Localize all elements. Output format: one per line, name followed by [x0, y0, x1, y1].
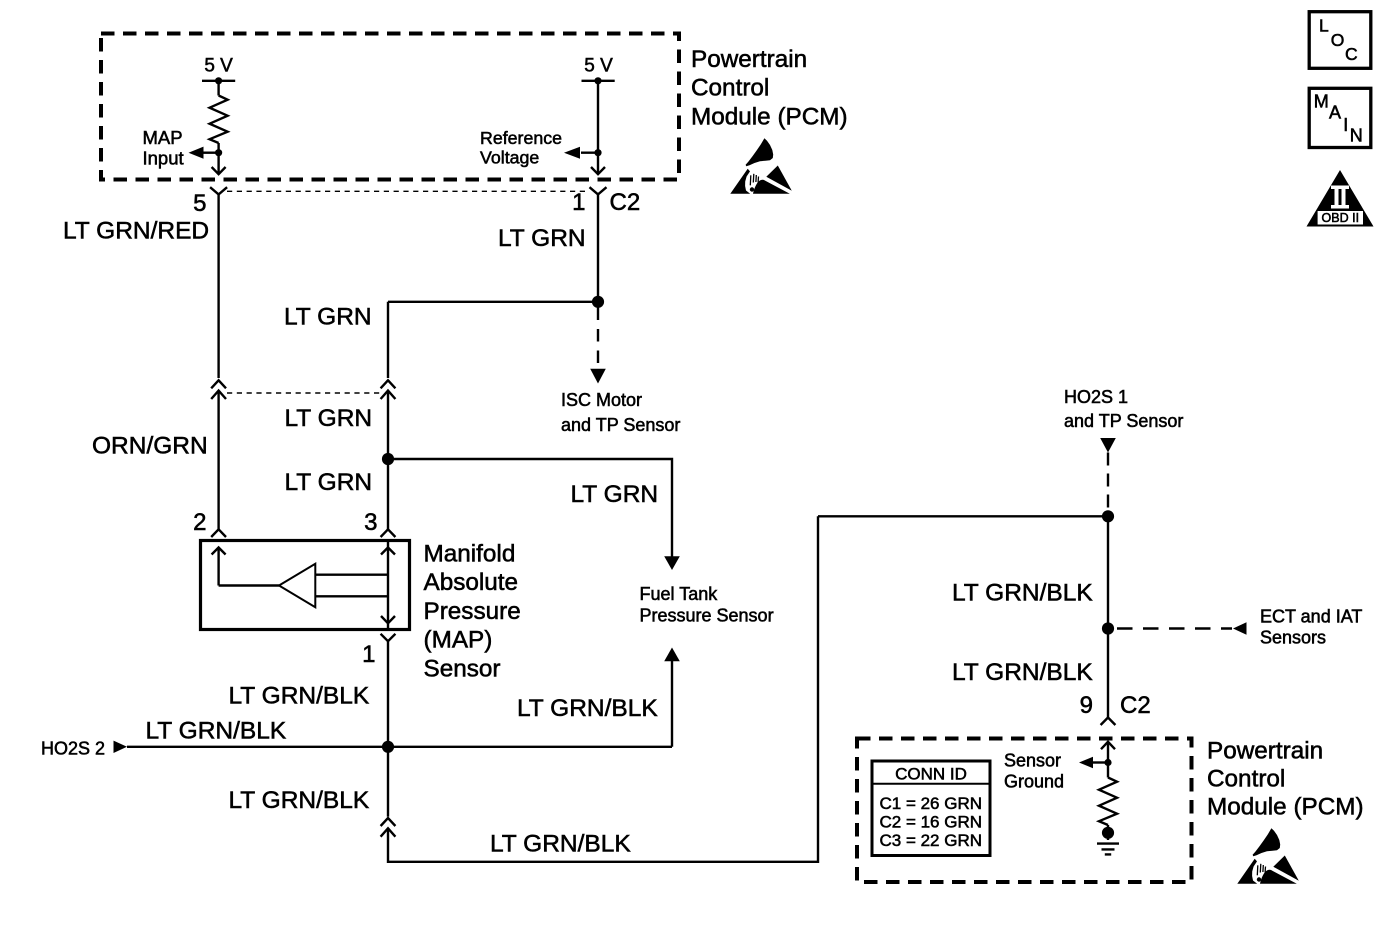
label Sensor Ground — [1004, 751, 1064, 792]
svg-text:Sensors: Sensors — [1260, 628, 1326, 648]
svg-text:C: C — [1345, 44, 1358, 64]
svg-text:M: M — [1314, 92, 1329, 112]
svg-text:LT GRN/BLK: LT GRN/BLK — [229, 787, 370, 814]
arrow MAP input (left) — [189, 147, 204, 159]
wire middle down to MAP pin3 — [387, 391, 389, 530]
wire reference voltage stub — [581, 151, 598, 153]
svg-text:3: 3 — [364, 509, 377, 536]
MAP internal left wire with up arrow — [217, 548, 219, 586]
arrowhead down at PCM edge left — [212, 167, 226, 174]
wire LT GRN to fuel tank pressure sensor — [388, 459, 672, 557]
node junction HO2S1 — [1102, 510, 1114, 522]
svg-text:(MAP): (MAP) — [424, 627, 493, 654]
CONN ID table box — [872, 761, 990, 856]
wire resistor to PCM edge — [217, 143, 219, 174]
node dot ground — [1102, 827, 1114, 839]
node dot 5V right — [594, 77, 601, 84]
svg-text:LT GRN/BLK: LT GRN/BLK — [517, 695, 658, 722]
svg-text:Powertrain: Powertrain — [1207, 737, 1323, 764]
svg-text:CONN ID: CONN ID — [895, 765, 967, 784]
svg-text:OBD II: OBD II — [1322, 211, 1360, 225]
wire MAP input stub — [204, 151, 219, 153]
svg-text:LT GRN/BLK: LT GRN/BLK — [229, 683, 370, 710]
MAP internal up arrow right — [381, 548, 395, 555]
wire to PCM pin9 (long run) — [388, 516, 818, 862]
svg-text:C1 = 26 GRN: C1 = 26 GRN — [880, 794, 983, 813]
svg-text:Module (PCM): Module (PCM) — [691, 103, 848, 130]
svg-text:ISC Motor: ISC Motor — [561, 390, 642, 410]
PCM module box (top) — [101, 34, 679, 180]
dashed wire from HO2S1 — [1107, 453, 1109, 511]
svg-text:C2: C2 — [610, 189, 641, 216]
label ECT and IAT Sensors — [1260, 607, 1362, 648]
wire HO2S2 horizontal — [127, 746, 672, 748]
node dot 5V left — [215, 77, 222, 84]
svg-text:5: 5 — [193, 190, 206, 217]
svg-text:1: 1 — [362, 641, 375, 668]
node dot MAP input tap — [215, 149, 222, 156]
svg-text:LT GRN/RED: LT GRN/RED — [63, 218, 209, 245]
wire pin5 down (LT GRN/RED) — [217, 194, 219, 378]
inline connector left (chevrons) — [211, 380, 226, 399]
svg-text:ORN/GRN: ORN/GRN — [92, 433, 208, 460]
svg-text:5 V: 5 V — [204, 56, 233, 77]
svg-text:LT GRN: LT GRN — [285, 405, 373, 432]
arrowhead up at PCM edge (sensor ground) — [1101, 742, 1115, 749]
resistor R (MAP input pull-up) — [210, 96, 228, 144]
svg-text:Sensor: Sensor — [1004, 751, 1061, 771]
inline connector middle (chevrons) — [381, 380, 396, 399]
svg-text:LT GRN/BLK: LT GRN/BLK — [952, 659, 1093, 686]
svg-text:Control: Control — [691, 74, 769, 101]
node dot reference voltage tap — [594, 149, 601, 156]
svg-text:Powertrain: Powertrain — [691, 46, 807, 73]
CONN ID table title separator — [874, 783, 989, 785]
svg-text:9: 9 — [1080, 692, 1093, 719]
connector pin 3 MAP — [381, 529, 396, 537]
svg-text:C3 = 22 GRN: C3 = 22 GRN — [880, 831, 983, 850]
node junction LT GRN fuel tap — [382, 453, 394, 465]
svg-text:Reference: Reference — [480, 128, 562, 148]
node dot sensor ground tap — [1104, 759, 1111, 766]
svg-text:ECT and IAT: ECT and IAT — [1260, 607, 1362, 627]
wire right column down — [1107, 516, 1109, 717]
arrow from HO2S 1 (down) — [1100, 438, 1116, 453]
OBD II pillar glyph — [1331, 186, 1349, 209]
5V supply bar right — [582, 80, 615, 82]
svg-text:Pressure: Pressure — [424, 598, 521, 625]
svg-text:L: L — [1319, 16, 1329, 36]
ESD symbol (bottom PCM) — [1237, 828, 1299, 884]
arrow sensor ground (left) — [1079, 757, 1093, 769]
svg-text:Ground: Ground — [1004, 772, 1064, 792]
svg-text:MAP: MAP — [143, 127, 183, 148]
dashed wire to ECT and IAT — [1117, 627, 1232, 629]
LOC hotspot box — [1309, 12, 1371, 69]
ground symbol — [1097, 844, 1119, 855]
svg-text:LT GRN: LT GRN — [285, 469, 373, 496]
arrow from fuel tank pressure sensor (up) — [664, 648, 680, 662]
connector pin 2 MAP — [211, 529, 226, 537]
svg-text:LT GRN: LT GRN — [498, 225, 586, 252]
OBD II triangle — [1307, 170, 1374, 227]
label Manifold Absolute Pressure (MAP) Sensor — [424, 541, 521, 683]
svg-text:Control: Control — [1207, 765, 1285, 792]
svg-text:2: 2 — [193, 509, 206, 536]
svg-text:Sensor: Sensor — [424, 655, 501, 682]
wire resistor to ground — [1107, 825, 1109, 840]
svg-text:Input: Input — [143, 148, 184, 169]
svg-text:Manifold: Manifold — [424, 541, 516, 568]
wire MAP pin1 down — [387, 641, 389, 747]
LOC letters — [1319, 16, 1358, 64]
node junction ground wire — [382, 741, 394, 753]
svg-text:C2 = 16 GRN: C2 = 16 GRN — [880, 813, 983, 832]
MAP internal down arrow right — [381, 616, 395, 623]
label Fuel Tank Pressure Sensor — [640, 584, 774, 626]
wire sensor ground down — [1107, 742, 1109, 778]
MAP internal right wire — [387, 541, 389, 630]
wire fuel tank sensor return — [671, 661, 673, 747]
label MAP Input — [143, 127, 184, 169]
svg-text:Voltage: Voltage — [480, 148, 539, 168]
arrow to ISC Motor (down) — [590, 369, 606, 384]
label Powertrain Control Module (PCM) top — [691, 46, 848, 130]
dashed wire to ISC Motor — [597, 308, 599, 367]
svg-text:and TP Sensor: and TP Sensor — [561, 415, 680, 435]
MAIN letters — [1314, 92, 1363, 146]
svg-text:C2: C2 — [1120, 692, 1151, 719]
ESD symbol (top PCM) — [730, 138, 792, 194]
label Reference Voltage — [480, 128, 562, 168]
connector pin 1 (C2) — [590, 187, 607, 194]
svg-text:O: O — [1331, 30, 1345, 50]
connector C2 dashed tie line — [227, 190, 589, 192]
wire middle branch down — [387, 302, 389, 378]
label HO2S 1 and TP Sensor — [1064, 387, 1183, 431]
MAP internal input wire bottom — [315, 595, 388, 597]
OBD II label plate — [1318, 211, 1363, 225]
svg-text:LT GRN: LT GRN — [571, 481, 659, 508]
svg-text:HO2S 2: HO2S 2 — [41, 739, 105, 759]
wire sensor ground stub — [1093, 761, 1108, 763]
node junction LT GRN — [592, 296, 604, 308]
svg-text:I: I — [1343, 115, 1348, 135]
wire 5V reference voltage down — [597, 81, 599, 174]
MAP sensor box — [201, 541, 410, 630]
svg-text:LT GRN/BLK: LT GRN/BLK — [146, 718, 287, 745]
svg-text:LT GRN/BLK: LT GRN/BLK — [952, 580, 1093, 607]
svg-text:1: 1 — [572, 189, 585, 216]
svg-text:and TP Sensor: and TP Sensor — [1064, 411, 1183, 431]
resistor (sensor ground) — [1099, 778, 1117, 826]
wire pin1 down (LT GRN) — [597, 194, 599, 301]
svg-text:HO2S 1: HO2S 1 — [1064, 387, 1128, 407]
svg-text:Fuel Tank: Fuel Tank — [640, 584, 719, 604]
connector pin 1 MAP — [381, 634, 396, 641]
inline connector dashed tie line — [227, 392, 380, 394]
wire left down to MAP pin2 (ORN/GRN) — [217, 391, 219, 530]
label Powertrain Control Module (PCM) bottom — [1207, 737, 1364, 820]
svg-text:Module (PCM): Module (PCM) — [1207, 793, 1364, 820]
connector pin 9 (C2) — [1101, 718, 1116, 726]
inline connector bottom (chevrons) — [381, 818, 396, 837]
label ISC Motor and TP Sensor — [561, 390, 680, 435]
svg-text:Absolute: Absolute — [424, 569, 519, 596]
svg-text:LT GRN: LT GRN — [284, 304, 372, 331]
MAIN hotspot box — [1309, 88, 1371, 147]
connector pin 5 (C2) — [210, 187, 227, 194]
wire junction down to inline connector — [387, 747, 389, 817]
arrow ECT (left-pointing) — [1233, 622, 1247, 634]
MAP internal input wire top — [315, 574, 388, 576]
arrow from HO2S 2 (right) — [114, 741, 128, 753]
MAP internal output wire — [219, 584, 279, 586]
wire LT GRN horizontal to middle branch — [388, 301, 598, 303]
arrowhead down at PCM edge right — [591, 167, 605, 174]
svg-text:N: N — [1350, 126, 1363, 146]
wire horizontal into HO2S1 node — [818, 515, 1108, 517]
svg-text:Pressure Sensor: Pressure Sensor — [640, 606, 774, 626]
PCM module box (bottom) — [857, 739, 1192, 883]
arrow to fuel tank pressure sensor (down) — [664, 556, 680, 570]
svg-text:5 V: 5 V — [584, 56, 613, 77]
svg-text:A: A — [1329, 103, 1341, 123]
wire 5V to resistor — [217, 81, 219, 96]
arrow reference voltage (left) — [564, 147, 580, 159]
5V supply bar left — [202, 80, 235, 82]
node junction ECT tap — [1102, 622, 1114, 634]
MAP internal amplifier (left-pointing triangle) — [279, 564, 315, 607]
svg-text:LT GRN/BLK: LT GRN/BLK — [490, 831, 631, 858]
